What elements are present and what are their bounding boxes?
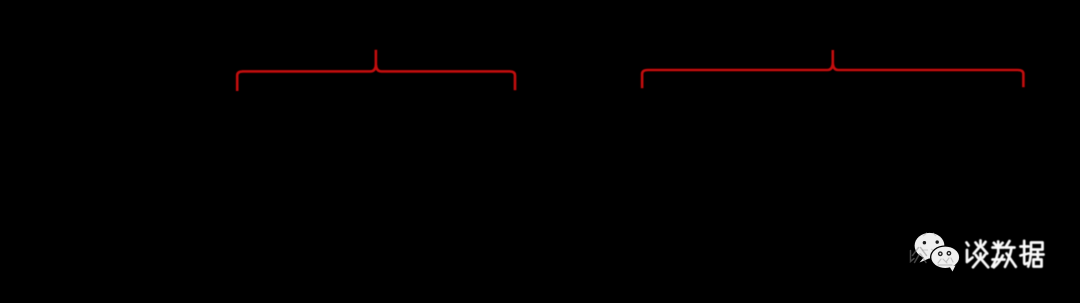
big bubble eyes [923,241,926,244]
faint marks inside small bubble [938,258,953,265]
small bubble eyes (rings) [939,252,942,255]
faint marks inside big bubble [922,233,936,252]
wechat big bubble tail [920,256,930,263]
wechat small bubble [931,247,959,268]
wechat small bubble tail [950,266,956,272]
brace B2 (right red overbrace) [642,50,1023,88]
dark gap ring around small bubble [930,245,960,269]
text 数 (hand strokes) [992,241,1016,267]
ghost glyph over logo lower-left [911,248,927,263]
text 谈 (hand strokes) [967,241,989,268]
brace B1 (left red overbrace) [237,50,515,91]
wechat big bubble [915,233,945,259]
text 据 (hand strokes) [1021,241,1044,267]
watermark group [911,233,1044,272]
